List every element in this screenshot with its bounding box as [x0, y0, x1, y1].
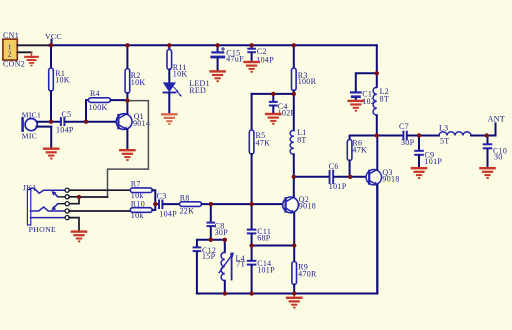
- node rail R9: [292, 291, 296, 295]
- node rail C14: [249, 291, 253, 295]
- svg-text:R10: R10: [131, 199, 145, 208]
- wire rail right drop: [376, 45, 378, 73]
- capacitor C3: [155, 192, 179, 219]
- node rail C2: [249, 43, 253, 47]
- capacitor C1: [350, 90, 375, 107]
- ground (JK1): [71, 230, 88, 242]
- node L2 C1: [375, 71, 379, 75]
- svg-text:47K: 47K: [352, 146, 367, 155]
- microphone MIC1: [21, 110, 60, 147]
- ground (CN1 pin 2): [24, 52, 39, 66]
- wire VCC top rail: [49, 44, 377, 46]
- node jack 2-3: [77, 195, 81, 199]
- svg-text:10k: 10k: [131, 211, 144, 220]
- ground (Q1): [119, 149, 136, 161]
- svg-text:8T: 8T: [297, 136, 307, 145]
- contact circles: [65, 188, 69, 192]
- contact 1: [58, 196, 66, 198]
- wire C6 to Q3 base: [350, 176, 369, 178]
- svg-text:47K: 47K: [256, 138, 271, 147]
- svg-text:9014: 9014: [133, 119, 150, 128]
- svg-text:R4: R4: [90, 89, 100, 98]
- transistor Q1: [116, 101, 150, 149]
- svg-text:30P: 30P: [215, 228, 229, 237]
- wire C1 branch: [356, 73, 377, 91]
- ground (MIC1): [43, 148, 60, 160]
- node rail C15: [215, 43, 219, 47]
- ground (C1): [348, 100, 365, 112]
- capacitor C5: [56, 110, 118, 135]
- capacitor C8: [207, 204, 229, 240]
- svg-text:101P: 101P: [257, 265, 275, 274]
- resistor R10: [130, 199, 155, 220]
- capacitor C15 (electrolytic): [210, 45, 244, 70]
- capacitor C7: [399, 122, 419, 147]
- node C7 C9: [417, 133, 421, 137]
- capacitor C2: [247, 45, 274, 64]
- wire jack contact3 riser: [69, 197, 108, 204]
- svg-text:7T: 7T: [236, 260, 246, 269]
- svg-text:30: 30: [494, 153, 503, 162]
- resistor R5: [249, 94, 270, 204]
- resistor R9: [292, 246, 317, 294]
- node L1 Q2 C6: [292, 175, 296, 179]
- transistor Q2: [283, 177, 316, 246]
- ground (C4): [265, 113, 282, 125]
- ground (LED1): [161, 113, 178, 125]
- svg-text:10K: 10K: [131, 78, 146, 87]
- svg-text:15P: 15P: [202, 252, 216, 261]
- node C4 tap: [271, 92, 275, 96]
- svg-text:C5: C5: [62, 110, 72, 119]
- svg-text:10K: 10K: [55, 75, 70, 84]
- svg-text:2: 2: [8, 51, 12, 59]
- node mic R1: [49, 120, 53, 124]
- wire base Q2: [211, 203, 286, 205]
- wire C8 bottom node: [197, 240, 225, 247]
- pin wires: [69, 189, 130, 191]
- svg-text:30P: 30P: [401, 138, 415, 147]
- node rail R11: [167, 43, 171, 47]
- svg-text:104P: 104P: [159, 210, 177, 219]
- svg-text:MIC: MIC: [22, 132, 37, 141]
- node rail R2: [125, 43, 129, 47]
- resistor R11: [167, 45, 187, 82]
- capacitor C11: [247, 204, 271, 245]
- capacitor C14: [247, 246, 275, 294]
- phone jack JK1: [23, 184, 131, 234]
- svg-text:8T: 8T: [380, 95, 390, 104]
- wire emitter link: [252, 245, 295, 247]
- svg-text:100R: 100R: [298, 77, 317, 86]
- wire feedback gray: [108, 101, 149, 197]
- svg-text:PHONE: PHONE: [29, 225, 56, 234]
- node R8 C8: [209, 202, 213, 206]
- node C8 bottom: [209, 238, 213, 242]
- svg-text:47uF: 47uF: [226, 55, 244, 64]
- plug 2: [31, 207, 66, 211]
- ground (C15): [209, 70, 226, 82]
- LED LED1: [164, 79, 210, 113]
- resistor R3: [292, 45, 317, 94]
- svg-text:VCC: VCC: [45, 32, 62, 41]
- ground (C2): [243, 61, 260, 73]
- svg-text:CON2: CON2: [3, 60, 25, 69]
- wire C9 to L3: [419, 135, 439, 137]
- wire bottom rail: [197, 185, 377, 293]
- svg-text:470R: 470R: [298, 270, 317, 279]
- resistor R4: [86, 89, 127, 122]
- node L3 C10: [485, 133, 489, 137]
- inductor L4 (adjustable): [219, 240, 246, 294]
- node base R5: [249, 202, 253, 206]
- resistor R6: [347, 136, 377, 177]
- svg-text:C7: C7: [399, 122, 409, 131]
- capacitor C6: [329, 162, 351, 191]
- svg-text:100K: 100K: [89, 103, 108, 112]
- svg-text:R8: R8: [180, 194, 190, 203]
- svg-text:101P: 101P: [425, 157, 443, 166]
- svg-text:CN1: CN1: [3, 31, 19, 40]
- svg-text:ANT: ANT: [488, 115, 505, 124]
- plug 1: [31, 188, 66, 193]
- inductor L2: [373, 73, 389, 135]
- resistor R1: [49, 45, 70, 121]
- svg-text:MIC1: MIC1: [22, 110, 41, 119]
- svg-text:9018: 9018: [299, 202, 316, 211]
- svg-text:C3: C3: [157, 192, 167, 201]
- svg-text:9018: 9018: [382, 175, 399, 184]
- inductor L3: [439, 124, 487, 146]
- node C5 R4: [84, 120, 88, 124]
- node C11 C14: [249, 243, 253, 247]
- connector CN1: [3, 31, 49, 69]
- svg-text:101P: 101P: [329, 182, 347, 191]
- node L4 top: [223, 238, 227, 242]
- ground (bottom rail): [286, 294, 303, 309]
- antenna ANT: [487, 115, 505, 136]
- svg-text:R7: R7: [131, 180, 141, 189]
- svg-text:68P: 68P: [257, 233, 271, 242]
- wire junction to C7: [377, 135, 403, 137]
- VCC power symbol: [45, 32, 62, 45]
- ground (C10): [479, 167, 496, 179]
- svg-text:104P: 104P: [56, 126, 74, 135]
- node R6 C6: [348, 175, 352, 179]
- node VCC: [49, 43, 53, 47]
- svg-text:22K: 22K: [180, 207, 195, 216]
- capacitor C12: [193, 246, 217, 294]
- resistor R8: [180, 194, 211, 216]
- ground (C9): [411, 167, 428, 179]
- resistor R2: [125, 45, 145, 100]
- wire collector node to C6: [294, 176, 329, 178]
- inductor L1: [290, 94, 307, 177]
- node R3 L1: [292, 92, 296, 96]
- node rail L4: [223, 291, 227, 295]
- svg-text:C6: C6: [329, 162, 339, 171]
- contact 2: [58, 203, 66, 205]
- svg-text:5T: 5T: [440, 137, 450, 146]
- wire R5top-R3bottom: [252, 93, 294, 95]
- svg-text:L3: L3: [439, 124, 449, 133]
- capacitor C4: [269, 94, 296, 118]
- svg-text:RED: RED: [189, 86, 206, 95]
- transistor Q3: [366, 136, 400, 294]
- node rail R3: [292, 43, 296, 47]
- node Q1 collector: [125, 98, 129, 102]
- node L2 C7: [375, 133, 379, 137]
- resistor R7: [130, 180, 155, 204]
- capacitor C10: [483, 136, 508, 168]
- sleeve wire to bar: [31, 217, 66, 219]
- node R7 R10 C3: [153, 202, 157, 206]
- node Q2 emitter R9: [292, 243, 296, 247]
- capacitor C9: [414, 136, 442, 168]
- svg-text:10K: 10K: [173, 70, 188, 79]
